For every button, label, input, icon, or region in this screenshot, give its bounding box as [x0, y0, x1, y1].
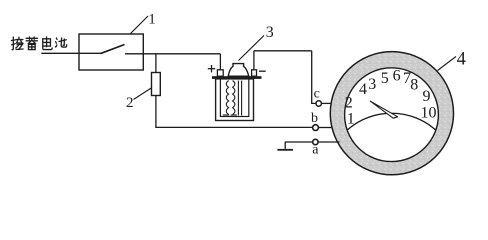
- svg-text:8: 8: [410, 76, 418, 93]
- svg-text:10: 10: [421, 105, 437, 122]
- svg-text:b: b: [311, 111, 318, 126]
- svg-text:3: 3: [368, 76, 376, 93]
- svg-text:5: 5: [381, 70, 389, 87]
- svg-text:9: 9: [423, 88, 431, 105]
- svg-text:4: 4: [359, 81, 367, 98]
- svg-text:3: 3: [266, 24, 274, 41]
- svg-text:2: 2: [126, 95, 134, 111]
- svg-text:c: c: [314, 87, 320, 102]
- svg-text:2: 2: [345, 95, 353, 112]
- svg-text:1: 1: [347, 111, 355, 128]
- svg-text:6: 6: [393, 67, 401, 84]
- svg-text:1: 1: [148, 12, 156, 28]
- svg-text:4: 4: [457, 49, 466, 69]
- svg-text:a: a: [312, 143, 319, 158]
